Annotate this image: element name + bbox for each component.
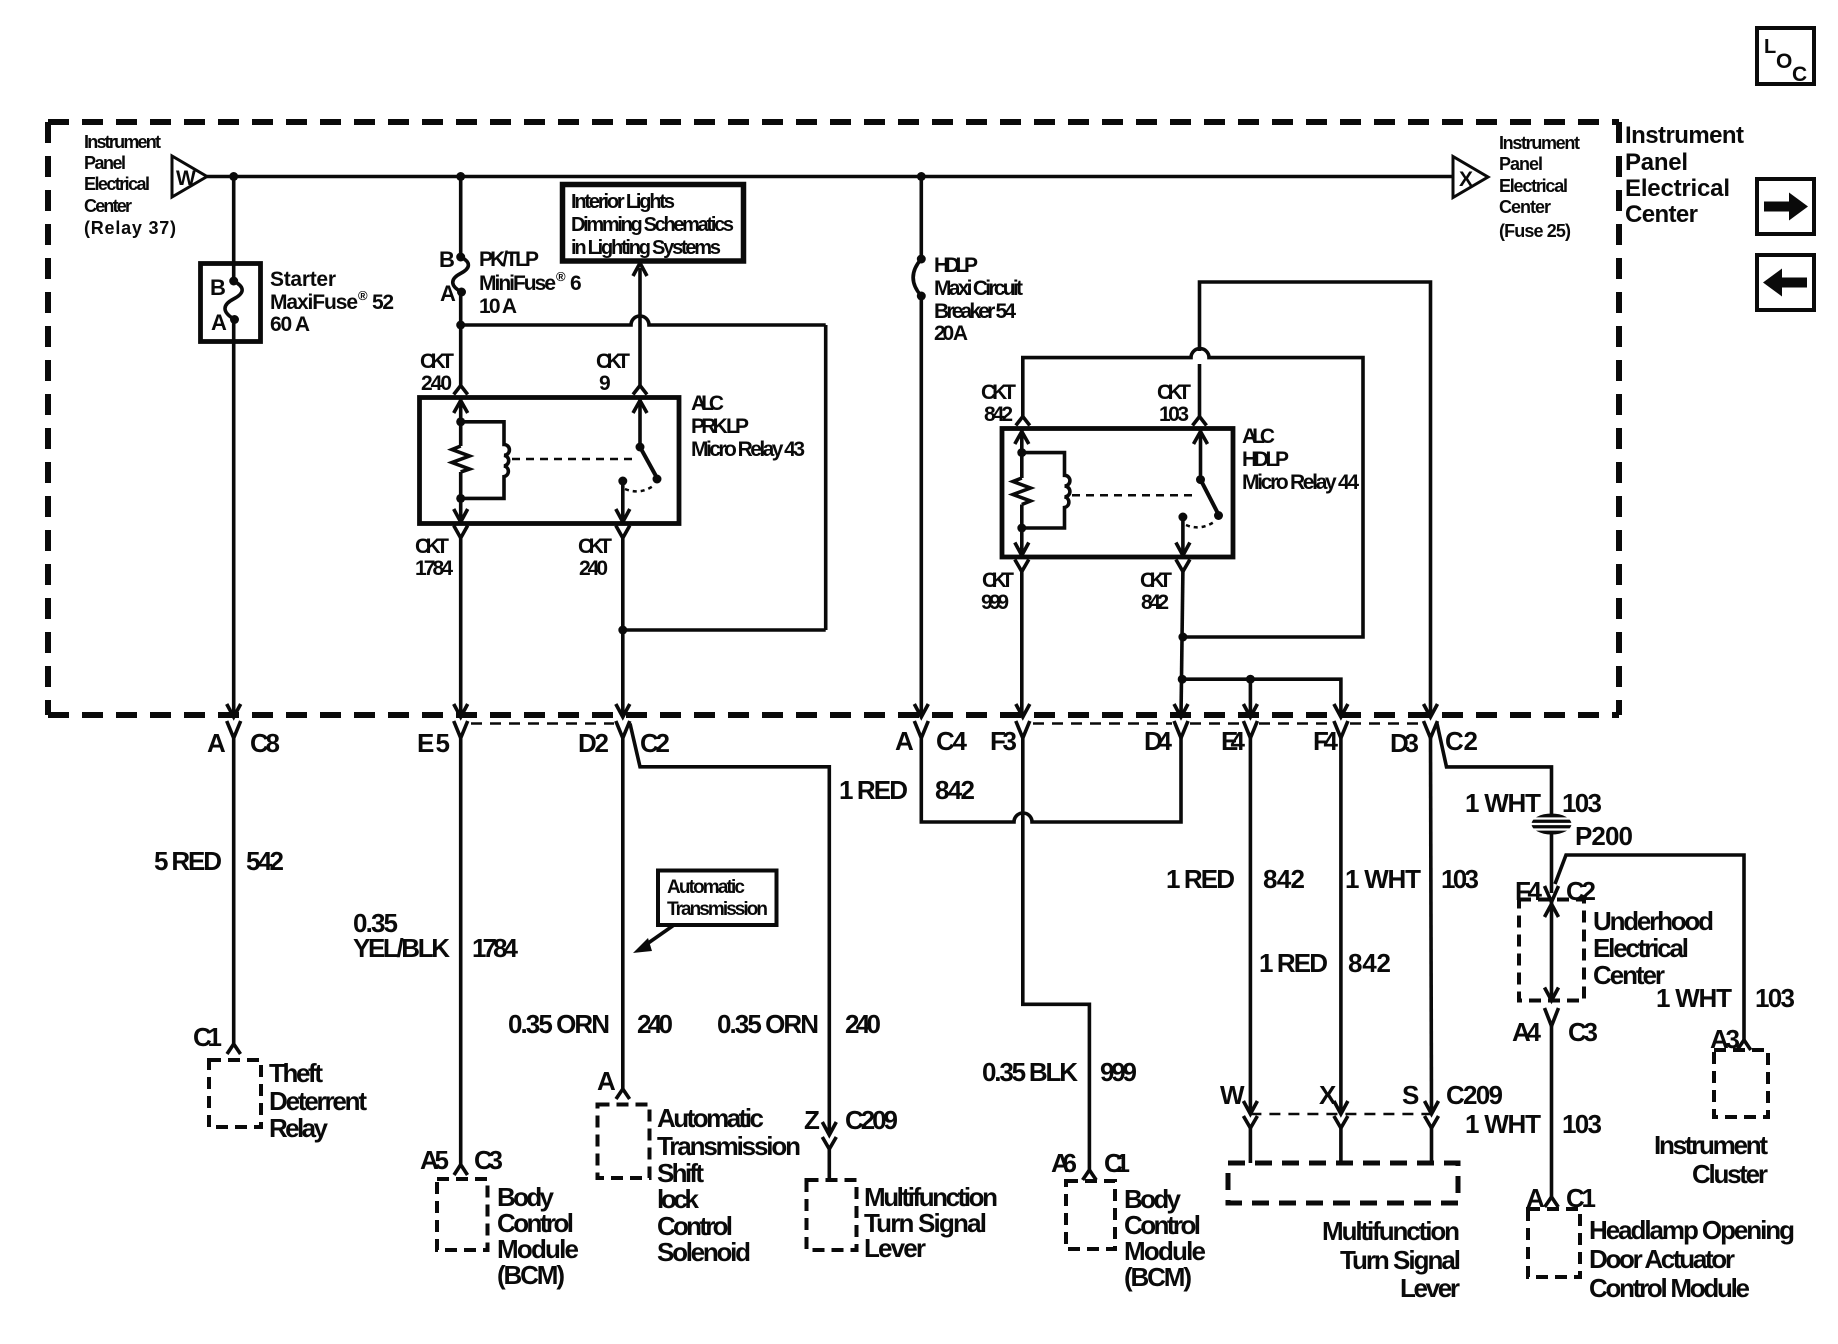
forward navigation arrow icon [1757,179,1814,234]
svg-text:CKT: CKT [981,381,1016,404]
svg-text:842: 842 [1263,864,1305,894]
connector fork F4 C2 [1545,886,1559,902]
connector fork below relay 43 pin CKT1784 [454,526,468,539]
svg-text:1 RED: 1 RED [839,775,908,805]
wires: W X S into multifunction lever box [1250,1128,1431,1163]
wire: branch to E4 and F4 [1182,679,1341,716]
wire: E4 drop [1249,679,1253,716]
svg-text:Theft: Theft [269,1058,323,1088]
svg-text:(BCM): (BCM) [1124,1262,1192,1292]
connector arrow at border pin F3 [1016,704,1030,717]
svg-text:W: W [1220,1080,1245,1110]
svg-text:Center: Center [1593,960,1665,990]
component box: Body Control Module (BCM) right [1066,1181,1115,1249]
connector end fork at theft deterrent relay [227,1044,241,1054]
node: bus junction at breaker drop [917,172,926,181]
connector end fork at instrument cluster [1737,1040,1751,1050]
svg-text:Automatic: Automatic [667,877,745,898]
fuse: PK/TLP MiniFuse 6 10 A [439,247,468,306]
svg-text:C3: C3 [1568,1017,1598,1047]
relay 43 output contact wire with down arrow [616,477,630,523]
thin connector line F3 to D3 [1033,722,1421,725]
relay U44: ALC HDLP Micro Relay 44 [1002,429,1233,558]
svg-text:CKT: CKT [420,350,454,373]
svg-text:1 RED: 1 RED [1259,948,1328,978]
wire: right loop bottom to relay 43 output [623,628,826,632]
svg-text:MiniFuse: MiniFuse [479,272,556,295]
svg-text:X: X [1459,168,1473,191]
svg-text:842: 842 [984,403,1013,426]
svg-text:6: 6 [570,272,582,295]
label: ALC HDLP Micro Relay 44 [1242,425,1359,494]
svg-text:Center: Center [1499,197,1551,217]
svg-text:CKT: CKT [982,569,1014,592]
wire: resistor to bottom pin relay 44 [1015,505,1029,556]
svg-text:Lever: Lever [864,1233,926,1263]
svg-text:Door Actuator: Door Actuator [1589,1244,1735,1274]
svg-text:Headlamp Opening: Headlamp Opening [1589,1215,1795,1245]
svg-text:(Fuse 25): (Fuse 25) [1499,221,1571,241]
svg-text:0.35 ORN: 0.35 ORN [508,1009,610,1039]
svg-text:Z: Z [804,1105,820,1135]
svg-text:240: 240 [637,1009,673,1039]
connector end fork at shift lock solenoid [616,1089,630,1099]
svg-text:lock: lock [657,1184,700,1214]
fuse: Starter MaxiFuse 52 60 A [201,264,261,342]
svg-text:Cluster: Cluster [1692,1159,1768,1189]
svg-text:0.35 ORN: 0.35 ORN [717,1009,819,1039]
relay 43 switch blade [636,443,662,484]
connector end fork at BCM right [1083,1170,1097,1180]
component box: Body Control Module (BCM) left [437,1179,488,1250]
svg-text:1 WHT: 1 WHT [1656,983,1732,1013]
connector fork Z [822,1137,836,1149]
coil L of relay 44 [1022,453,1070,528]
svg-text:Breaker 54: Breaker 54 [934,300,1016,323]
svg-text:Starter: Starter [270,268,336,291]
svg-text:5 RED: 5 RED [154,846,222,876]
label: Instrument Panel Electrical Center (Relay 37) [84,132,176,238]
svg-text:F4: F4 [1313,726,1339,756]
svg-text:A: A [440,281,456,306]
svg-text:103: 103 [1441,864,1479,894]
svg-text:O: O [1776,50,1792,73]
svg-text:C209: C209 [1446,1080,1503,1110]
svg-text:®: ® [556,269,566,284]
svg-text:C2: C2 [1445,726,1478,756]
svg-text:PK/TLP: PK/TLP [479,248,539,271]
svg-text:F3: F3 [990,726,1017,756]
svg-text:in Lighting Systems: in Lighting Systems [571,237,721,259]
svg-text:W: W [176,167,196,190]
thin connector line C209 W to S [1250,1113,1431,1116]
svg-text:Lever: Lever [1400,1273,1460,1303]
wire: E4 to W multifunction lever [1249,738,1253,1114]
coil L of relay 43 [461,422,510,499]
svg-text:C3: C3 [474,1145,503,1175]
svg-text:Center: Center [84,196,132,216]
svg-text:1784: 1784 [415,557,453,580]
wire: branch from D2 C2 to turn signal lever Z [630,724,829,1136]
svg-text:999: 999 [1100,1057,1137,1087]
connector arrow at border pin D4 [1174,704,1188,717]
svg-text:9: 9 [599,372,611,395]
svg-text:D3: D3 [1390,728,1419,758]
svg-text:ALC: ALC [1242,425,1275,448]
relay 44 switch common wire with up arrow [1194,430,1208,480]
svg-text:Underhood: Underhood [1593,906,1714,936]
label: HDLP Maxi Circuit Breaker 54 20 A [934,254,1023,345]
connector fork D4 [1174,721,1188,738]
relay 43 switch common wire with up arrow [633,399,647,447]
svg-text:Panel: Panel [84,153,126,173]
wire: CKT 842 feed to relay 44 with hop over CKT 103 [1023,349,1363,637]
wire: bus down to starter maxifuse [232,177,236,282]
connector arrow at border pin D3 [1424,704,1438,717]
svg-text:Electrical: Electrical [1593,933,1689,963]
breaker: HDLP Maxi Circuit Breaker 54 20 A [913,255,926,301]
svg-text:L: L [1764,36,1776,58]
relay 43 coil pin wire with up arrow [454,399,468,446]
svg-text:Electrical: Electrical [1499,176,1568,196]
svg-text:(BCM): (BCM) [497,1260,565,1290]
svg-text:999: 999 [981,591,1009,614]
relay 44 switch blade [1196,475,1223,520]
svg-text:C2: C2 [640,728,670,758]
svg-text:Panel: Panel [1625,149,1688,176]
svg-text:S: S [1402,1080,1419,1110]
svg-text:103: 103 [1562,788,1602,818]
label: Underhood Electrical Center [1593,906,1714,990]
wire: bus down to PK/TLP minifuse [459,177,463,258]
resistor inside relay 44 [1013,478,1031,505]
component box: Multifunction Turn Signal Lever (large) [1228,1163,1458,1203]
connector arrow at border pin E4 [1243,704,1257,717]
svg-text:Center: Center [1625,201,1698,228]
component box: Automatic Transmission Shift lock Control Solenoid [598,1105,650,1179]
svg-text:A: A [211,310,227,335]
svg-text:B: B [439,247,455,272]
svg-text:B: B [210,275,226,300]
svg-text:HDLP: HDLP [1242,448,1289,471]
connector fork below relay 43 pin CKT240 out [616,526,630,539]
wire: F4 to X multifunction lever [1339,738,1343,1114]
node X: feed triangle to Fuse 25 [1453,157,1488,198]
resistor inside relay 43 [452,446,470,472]
svg-text:Automatic: Automatic [657,1103,764,1133]
label: Headlamp Opening Door Actuator Control Module [1589,1215,1795,1303]
connector fork below relay 44 pin CKT999 [1015,560,1029,572]
connector arrow at border pin A C4 [914,704,928,717]
relay U43: ALC PRK LP Micro Relay 43 [420,398,680,524]
svg-text:Transmission: Transmission [657,1131,801,1161]
svg-text:Micro Relay 43: Micro Relay 43 [691,438,805,461]
connector fork F3 [1016,721,1030,738]
relay 44 output contact wire with down arrow [1176,513,1190,556]
wire: relay 43 output CKT240 to border pin D2 [621,538,625,716]
svg-text:CKT: CKT [578,535,612,558]
connector fork at relay 43 pin CKT9 [633,386,647,395]
connector end fork at headlamp module [1545,1197,1559,1207]
component box: Underhood Electrical Center [1519,900,1584,1001]
wire: minifuse to relay 43 CKT 240 [459,292,463,386]
svg-text:A4: A4 [1512,1017,1542,1047]
label: Instrument Panel Electrical Center (Fuse 25) [1499,133,1580,241]
wire: 5 RED 542 down to theft deterrent relay [232,738,236,1044]
svg-text:1784: 1784 [472,933,519,963]
callout box: Automatic Transmission [658,871,777,926]
relay 44 switch travel arc [1186,522,1214,527]
svg-text:240: 240 [845,1009,881,1039]
svg-text:Relay: Relay [269,1113,329,1143]
label: Multifunction Turn Signal Lever [864,1182,998,1263]
svg-text:CKT: CKT [415,535,449,558]
svg-text:842: 842 [1348,948,1391,978]
thin connector line E5 to D2 [471,722,614,725]
svg-text:Control Module: Control Module [1589,1273,1750,1303]
svg-text:CKT: CKT [596,350,630,373]
connector fork at relay 44 pin CKT842 [1016,417,1030,426]
wire: 0.35 YEL/BLK 1784 to BCM [459,738,463,1165]
connector arrow at border pin E5 [454,704,468,717]
svg-text:60 A: 60 A [270,313,310,336]
svg-text:Electrical: Electrical [84,174,150,194]
svg-text:Instrument: Instrument [84,132,161,152]
component box: Theft Deterrent Relay [209,1060,261,1127]
connector arrow at border pin F4 [1334,704,1348,717]
svg-text:D4: D4 [1144,726,1173,756]
wire: CKT999 from relay 44 through border pin F3 to BCM [1022,572,1090,1171]
svg-text:C209: C209 [845,1105,898,1135]
connector arrow at C209 pin W [1243,1101,1257,1114]
svg-text:240: 240 [579,557,608,580]
svg-text:HDLP: HDLP [934,254,978,277]
svg-text:E4: E4 [1221,726,1246,756]
svg-text:C1: C1 [193,1022,222,1052]
svg-text:20 A: 20 A [934,322,968,345]
svg-text:YEL/BLK: YEL/BLK [353,933,450,963]
label: Body Control Module (BCM) right [1124,1184,1206,1292]
svg-text:Turn Signal: Turn Signal [1340,1245,1461,1275]
wire: 1 WHT 103 to headlamp door actuator module [1550,1026,1554,1197]
component box: Multifunction Turn Signal Lever (small) [807,1180,857,1250]
svg-text:(Relay 37): (Relay 37) [84,218,176,238]
svg-text:Electrical: Electrical [1625,175,1730,202]
svg-text:103: 103 [1562,1109,1602,1139]
svg-text:Solenoid: Solenoid [657,1237,751,1267]
wire: branch from CKT240 over CKT9 to right loop [461,316,826,325]
svg-text:1 WHT: 1 WHT [1465,1109,1541,1139]
node: bus junction at minifuse drop [456,172,465,181]
component box: Headlamp Opening Door Actuator Control Module [1528,1209,1580,1277]
svg-text:842: 842 [935,775,975,805]
svg-text:Micro Relay 44: Micro Relay 44 [1242,471,1359,494]
connector fork at relay 43 pin CKT240 [454,386,468,395]
svg-text:ALC: ALC [691,392,724,415]
node: junction inner loop [1178,633,1187,642]
connector fork below relay 44 pin CKT842 out [1176,560,1190,572]
svg-text:52: 52 [372,291,394,314]
relay 44 coil pin wire with up arrow [1015,430,1029,478]
relay 43 switch travel arc [625,486,653,491]
connector fork S [1425,1116,1439,1128]
svg-text:C: C [1792,63,1807,86]
label: Instrument Cluster [1654,1130,1768,1189]
splice P200 [1532,814,1572,835]
connector arrow at border pin D2 [616,704,630,717]
svg-text:1 WHT: 1 WHT [1345,864,1421,894]
svg-text:1 WHT: 1 WHT [1465,788,1541,818]
svg-text:A: A [207,728,226,758]
svg-text:103: 103 [1159,403,1189,426]
label: Automatic Transmission Shift lock Control Solenoid [657,1103,801,1267]
connector fork E5 [454,721,468,738]
wire through underhood center with arrows [1545,902,1559,1001]
node: bus junction at starter fuse drop [229,172,238,181]
label: Instrument Panel Electrical Center (right margin) [1625,122,1744,228]
wire: D3 C2 branch 1 WHT 103 to underhood center [1437,724,1552,815]
connector arrow at IPEC border (C8 pin A) [227,704,241,717]
label: 0.35 YEL/BLK 1784 [353,908,519,963]
connector fork C8 pin A [227,721,241,738]
LOC page-locator icon box top right [1757,28,1814,86]
svg-text:10 A: 10 A [479,295,517,318]
svg-text:542: 542 [246,846,284,876]
node: junction with right loop [618,626,627,635]
wire: P200 to F4 C2 underhood [1550,834,1554,893]
svg-text:Instrument: Instrument [1499,133,1580,153]
svg-text:240: 240 [421,372,452,395]
svg-text:CKT: CKT [1140,569,1172,592]
label: Multifunction Turn Signal Lever (large) [1322,1216,1461,1303]
svg-text:P200: P200 [1575,821,1633,851]
svg-text:1 RED: 1 RED [1166,864,1235,894]
connector fork D3 [1424,721,1438,738]
node: junction E4/F4 branch [1178,675,1187,684]
wire: relay 44 output CKT842 down to D4 [1181,572,1183,717]
callout box: Interior Lights Dimming Schematics in Lighting Systems [563,185,744,262]
back navigation arrow icon [1757,255,1814,310]
dashed box: Instrument Panel Electrical Center [48,122,1619,715]
svg-text:C4: C4 [936,726,968,756]
wire: Z to multifunction lever [827,1149,831,1180]
wire: outer loop CKT 103 top [1200,282,1431,716]
node W: power feed triangle [172,156,207,197]
svg-text:D2: D2 [578,728,609,758]
svg-text:A5: A5 [420,1145,449,1175]
svg-text:Transmission: Transmission [667,899,768,920]
svg-text:Dimming Schematics: Dimming Schematics [571,214,734,236]
wire: slant and link to instrument cluster branch [1555,855,1744,1040]
svg-text:103: 103 [1755,983,1795,1013]
callout arrow to wire 240 [633,925,674,953]
wire: CKT 9 from relay 43 up to interior lights schematic [638,268,642,386]
node: junction at E4 drop [1246,675,1255,684]
wire: CKT1784 from relay 43 to border [459,538,463,716]
svg-text:Instrument: Instrument [1654,1130,1768,1160]
svg-text:842: 842 [1141,591,1169,614]
dashed actuation line relay 43 [512,458,634,461]
svg-text:A: A [597,1066,616,1096]
svg-text:PRK LP: PRK LP [691,415,749,438]
connector fork D2 [616,721,630,738]
svg-text:Maxi Circuit: Maxi Circuit [934,277,1023,300]
wire: fuse 52 to connector C8 pin A [232,320,236,717]
connector fork X [1334,1116,1348,1128]
wire: D3 to S multifunction lever [1431,738,1432,1114]
svg-text:MaxiFuse: MaxiFuse [270,291,358,314]
component box: Instrument Cluster [1714,1050,1768,1117]
label: PK/TLP MiniFuse 6 10 A [479,248,582,318]
svg-text:CKT: CKT [1157,381,1191,404]
label: Body Control Module (BCM) [497,1182,579,1290]
connector arrow at C209 pin Z [822,1122,836,1135]
connector fork W [1243,1116,1257,1128]
wire: bus down to HDLP breaker [919,177,923,260]
connector fork A4 C3 below underhood center [1545,1008,1559,1026]
svg-text:E5: E5 [417,728,450,758]
svg-text:A6: A6 [1051,1148,1077,1178]
node: branch junction below minifuse [456,321,465,330]
label: ALC PRK LP Micro Relay 43 [691,392,805,461]
svg-text:X: X [1319,1080,1337,1110]
arrow up to interior lights box [633,263,647,276]
connector end fork at BCM [454,1165,468,1175]
label: Theft Deterrent Relay [269,1058,367,1143]
wire: 0.35 ORN 240 to shift lock solenoid [621,738,625,1089]
dashed actuation line relay 44 [1072,494,1193,497]
label: Starter MaxiFuse 52 60 A [270,268,394,336]
svg-text:Deterrent: Deterrent [269,1086,367,1116]
wire: main bus from W to X [207,175,1453,179]
wire: resistor to bottom pin relay 43 [454,472,468,522]
svg-text:Panel: Panel [1499,154,1543,174]
connector fork A C4 [914,721,928,738]
wire: right loop vertical down [824,325,828,630]
connector fork F4 [1334,721,1348,738]
svg-text:Multifunction: Multifunction [1322,1216,1460,1246]
svg-text:0.35 BLK: 0.35 BLK [982,1057,1078,1087]
svg-text:Instrument: Instrument [1625,122,1744,149]
connector fork E4 [1243,721,1257,738]
svg-text:C1: C1 [1104,1148,1130,1178]
wire: breaker to border pin A C4 [919,296,923,716]
svg-text:A: A [895,726,914,756]
wire: 1 RED 842 link from A C4 to D4 [921,738,1181,822]
svg-text:Interior Lights: Interior Lights [571,191,675,213]
connector arrow at C209 pin S [1425,1101,1439,1114]
svg-text:C8: C8 [250,728,280,758]
svg-text:®: ® [358,288,368,303]
connector arrow at C209 pin X [1334,1101,1348,1114]
connector fork at relay 44 pin CKT103 [1193,417,1207,426]
